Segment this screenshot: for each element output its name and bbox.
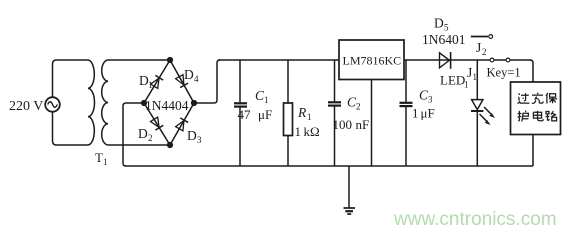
svg-text:kΩ: kΩ (304, 124, 320, 139)
wire: secondary bottom to bridge bottom (108, 144, 170, 146)
svg-text:3: 3 (197, 135, 202, 145)
svg-text:R: R (297, 105, 307, 120)
svg-text:1: 1 (295, 124, 302, 139)
svg-text:1: 1 (148, 80, 153, 90)
svg-text:1: 1 (307, 112, 312, 122)
label D1 (139, 73, 153, 90)
regulator U1 LM7816KC (339, 40, 404, 80)
label J2 (476, 40, 487, 57)
resistor R1 (284, 60, 293, 166)
ground (344, 166, 356, 214)
wire: LED branch (476, 60, 478, 100)
svg-text:J: J (476, 40, 481, 55)
svg-text:47: 47 (238, 107, 252, 122)
svg-text:1: 1 (412, 106, 419, 121)
bridge diamond frame (144, 60, 194, 145)
wire: top rail to regulator input (218, 59, 339, 61)
wire: switch to protection box top (530, 60, 533, 82)
label C1 (255, 88, 269, 105)
svg-text:D: D (434, 16, 444, 31)
switch J2 (471, 35, 510, 62)
svg-text:5: 5 (444, 23, 449, 33)
svg-text:nF: nF (356, 117, 370, 132)
label D4 (184, 67, 199, 84)
label 1 uF (412, 106, 435, 121)
svg-text:μF: μF (258, 107, 272, 122)
LED1 emission arrows (480, 107, 496, 125)
node: bridge left junction (141, 100, 147, 106)
svg-text:1N4404: 1N4404 (145, 98, 189, 113)
diode D2 (150, 117, 163, 130)
svg-text:T: T (95, 150, 103, 165)
label 47 uF (238, 107, 273, 122)
label D2 (138, 126, 153, 143)
label Chinese: hu (protect) (518, 111, 529, 122)
wire: protection box bottom to rail (532, 135, 534, 167)
svg-text:1: 1 (103, 157, 108, 167)
svg-text:μF: μF (421, 106, 435, 121)
wire: secondary top to bridge top (108, 59, 170, 61)
diode D3 (175, 118, 188, 131)
svg-text:1: 1 (464, 80, 469, 90)
svg-text:4: 4 (194, 74, 199, 84)
svg-text:Key=1: Key=1 (487, 66, 521, 80)
wire: regulator output rail (404, 59, 531, 61)
label 100 nF (333, 117, 370, 132)
label LED1 (440, 73, 469, 90)
svg-text:J: J (467, 65, 472, 80)
svg-text:220 V: 220 V (9, 99, 43, 114)
capacitor C3 (400, 60, 413, 166)
svg-text:www.cntronics.com: www.cntronics.com (393, 209, 557, 230)
LED LED1 (471, 100, 483, 166)
svg-text:3: 3 (428, 95, 433, 105)
svg-text:1: 1 (264, 95, 269, 105)
svg-text:1: 1 (473, 72, 478, 82)
svg-text:D: D (138, 126, 148, 141)
diode D5 (440, 52, 451, 69)
svg-text:LM7816KC: LM7816KC (343, 54, 402, 68)
transformer T1 primary winding (88, 60, 94, 145)
diode D4 (175, 74, 188, 87)
label Chinese: chong (charge) (532, 93, 543, 104)
wire: bottom rail (125, 165, 533, 167)
svg-text:100: 100 (333, 117, 353, 132)
protection circuit box (511, 82, 561, 135)
svg-text:D: D (184, 67, 194, 82)
node: bridge top junction (167, 57, 173, 63)
label Chinese: guo (over) (517, 93, 529, 103)
svg-text:1N6401: 1N6401 (422, 32, 466, 47)
wire: bridge right up to top rail (194, 60, 220, 103)
svg-text:2: 2 (356, 102, 361, 112)
node: bridge right junction (191, 100, 197, 106)
AC source V1 220V (45, 60, 88, 145)
label J1 (467, 65, 477, 82)
label C2 (347, 95, 361, 112)
label C3 (419, 88, 433, 105)
capacitor C2 (328, 60, 341, 166)
label D5 (434, 16, 449, 33)
label D3 (187, 128, 202, 145)
transformer T1 secondary winding (102, 60, 108, 145)
label 1 kOhm (295, 124, 320, 139)
diode D1 (150, 75, 163, 88)
label Chinese: bao (protect) (546, 93, 557, 104)
svg-text:LED: LED (440, 73, 465, 88)
label T1 (95, 150, 108, 167)
label Chinese: dian (electric) (533, 111, 543, 121)
svg-text:D: D (187, 128, 197, 143)
svg-text:2: 2 (148, 133, 153, 143)
node: bridge bottom junction (167, 142, 173, 148)
label R1 (297, 105, 312, 122)
wire: regulator ground pin (371, 80, 373, 167)
wire: bridge left to bottom rail (123, 103, 144, 166)
capacitor C1 (234, 60, 247, 166)
svg-text:2: 2 (482, 47, 487, 57)
label Chinese: lu (circuit) (546, 111, 557, 121)
